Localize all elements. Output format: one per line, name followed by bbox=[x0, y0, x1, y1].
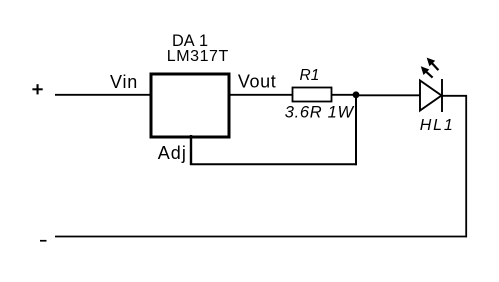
regulator DA1 LM317T body bbox=[151, 74, 229, 137]
LED HL1 triangle (anode) bbox=[420, 81, 442, 111]
svg-text:Adj: Adj bbox=[158, 143, 187, 163]
wire + to Vin bbox=[55, 94, 151, 96]
wire Adj pin bbox=[190, 135, 192, 165]
svg-text:Vin: Vin bbox=[110, 72, 138, 92]
wire R1 to node A bbox=[332, 94, 356, 96]
svg-text:LM317T: LM317T bbox=[167, 48, 229, 65]
svg-text:3.6R 1W: 3.6R 1W bbox=[285, 104, 355, 122]
label - (negative terminal) bbox=[40, 240, 47, 242]
LED emission arrow 2 bbox=[421, 66, 433, 77]
wire node A down (feedback) bbox=[355, 95, 357, 165]
svg-text:R1: R1 bbox=[300, 67, 320, 84]
LED emission arrow 1 bbox=[427, 58, 439, 71]
node A junction dot bbox=[353, 91, 360, 98]
label + (positive terminal) bbox=[32, 84, 42, 94]
wire bottom rail bbox=[55, 236, 467, 238]
wire Vout to R1 bbox=[228, 94, 292, 96]
wire right rail down bbox=[465, 95, 467, 237]
wire LED to right rail bbox=[442, 95, 467, 97]
svg-text:HL1: HL1 bbox=[420, 117, 455, 134]
wire node A to LED bbox=[356, 94, 420, 96]
LED HL1 cathode bar bbox=[441, 79, 443, 112]
resistor R1 bbox=[293, 88, 332, 102]
wire feedback horizontal bbox=[190, 163, 357, 165]
svg-text:Vout: Vout bbox=[238, 71, 276, 91]
